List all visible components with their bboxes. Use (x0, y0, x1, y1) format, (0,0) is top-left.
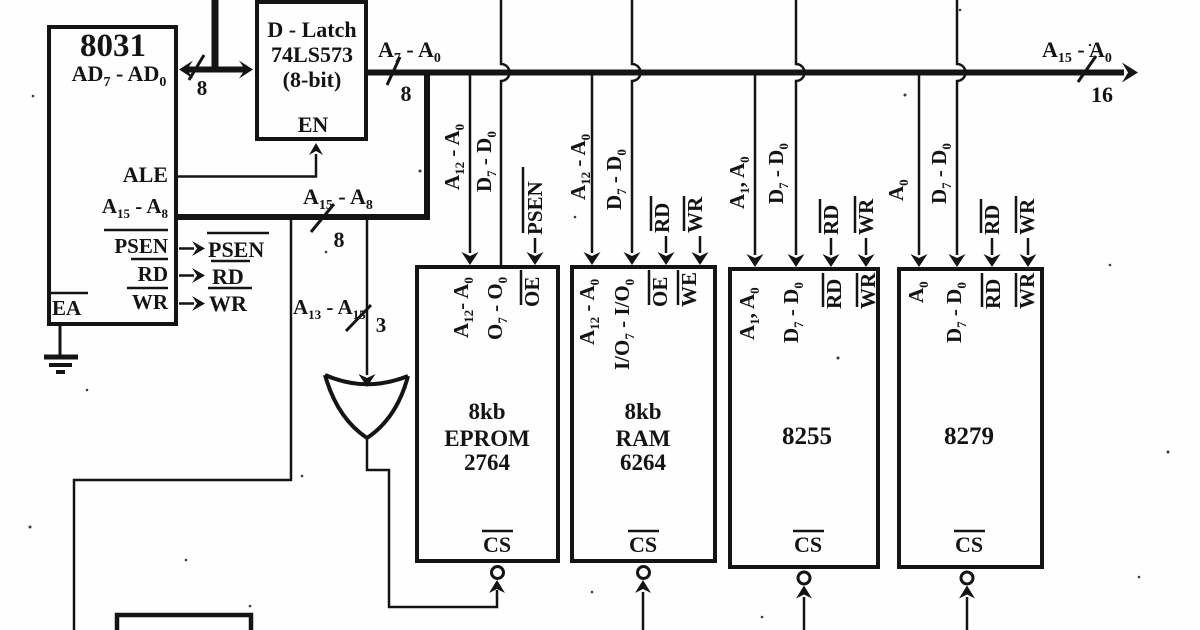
OR gate G1 (address decode, pointing down) (325, 375, 408, 438)
wire: 8279 address tap A0 (911, 75, 928, 267)
wire: 8255 data line D7-D0 from top with hop over bus (788, 0, 805, 267)
svg-text:D7 - D0: D7 - D0 (602, 149, 629, 210)
svg-text:EN: EN (298, 112, 329, 137)
IC 8031 microcontroller U1 (49, 27, 176, 324)
wire: EPROM address tap A12-A0 (462, 75, 479, 265)
svg-text:OE: OE (648, 277, 672, 307)
svg-text:WR: WR (1015, 272, 1039, 309)
node: WR control into 8255 (854, 196, 878, 267)
svg-text:A15 - A8: A15 - A8 (303, 184, 373, 213)
svg-text:D7 - D0: D7 - D0 (927, 143, 954, 204)
svg-text:8kb: 8kb (624, 399, 661, 424)
svg-text:A15 - A8: A15 - A8 (102, 194, 169, 221)
svg-text:8: 8 (197, 76, 208, 100)
node: rotated label D7-D0 above RAM (602, 149, 629, 210)
svg-text:3: 3 (376, 313, 387, 337)
node: A7-A0 label with slash 8 on bus (378, 37, 441, 106)
svg-text:D7 - D0: D7 - D0 (779, 282, 806, 343)
svg-text:WR: WR (683, 196, 707, 233)
svg-text:8255: 8255 (782, 423, 832, 450)
wire: main address bus A15-A0 (366, 63, 1138, 83)
svg-text:CS: CS (483, 532, 511, 557)
svg-text:WE: WE (677, 272, 701, 307)
svg-text:RD: RD (212, 264, 244, 289)
svg-text:ALE: ALE (123, 162, 168, 187)
node: WR control into 8279 (1015, 196, 1039, 267)
svg-text:RD: RD (981, 279, 1005, 309)
svg-text:A12- A0: A12- A0 (449, 277, 476, 338)
ground below EA pin of 8031 (44, 326, 78, 372)
svg-text:A1, A0: A1, A0 (725, 156, 752, 209)
svg-text:PSEN: PSEN (114, 234, 168, 258)
svg-text:16: 16 (1091, 82, 1113, 107)
svg-text:A12 - A0: A12 - A0 (440, 124, 467, 190)
svg-text:RD: RD (138, 262, 168, 286)
svg-text:D7 - D0: D7 - D0 (764, 143, 791, 204)
svg-text:A0: A0 (884, 179, 911, 201)
wire: A13-A15 into OR gate (359, 220, 376, 387)
node: rotated label D7-D0 above 8279 (927, 143, 954, 204)
svg-text:AD7 - AD0: AD7 - AD0 (72, 61, 167, 90)
svg-text:A12 - A0: A12 - A0 (575, 279, 602, 345)
node: RD output arrow and label (179, 261, 250, 289)
svg-text:A15 - A0: A15 - A0 (1042, 37, 1112, 66)
svg-text:6264: 6264 (620, 450, 667, 475)
svg-text:D - Latch: D - Latch (267, 17, 356, 42)
svg-text:EA: EA (52, 296, 82, 320)
node: rotated label A0 above 8279 (884, 179, 911, 201)
wire: 8279 CS down to decoder (959, 586, 975, 630)
IC 8255 PPI U5 (730, 269, 880, 584)
svg-text:A13 - A15: A13 - A15 (293, 295, 366, 322)
svg-text:D7 - D0: D7 - D0 (472, 131, 499, 192)
svg-text:8: 8 (334, 227, 345, 252)
svg-text:RD: RD (822, 279, 846, 309)
svg-text:RD: RD (980, 205, 1004, 235)
svg-text:PSEN: PSEN (523, 181, 547, 235)
IC 8279 keyboard/display controller U6 (899, 269, 1042, 584)
wire: from A15-A8 bus down and left to decoder (74, 218, 291, 630)
svg-text:D7 - D0: D7 - D0 (942, 282, 969, 343)
svg-text:8279: 8279 (944, 423, 994, 450)
svg-text:I/O7 - I/O0: I/O7 - I/O0 (610, 279, 637, 370)
wire: RAM data line D7-D0 from top with hop over bus (624, 0, 641, 265)
wire: AD7-AD0 bus between 8031 and latch (double arrow) (179, 55, 253, 100)
node: rotated label A12-A0 above EPROM (440, 124, 467, 190)
node: PSEN control into EPROM OE (523, 167, 547, 265)
svg-text:WR: WR (1015, 198, 1039, 235)
node: A15-A0 label with slash 16 at bus end (1042, 37, 1113, 107)
svg-text:PSEN: PSEN (208, 237, 264, 262)
wire: RAM address tap A12-A0 (584, 75, 601, 265)
wire: OR gate output to EPROM CS (367, 438, 505, 607)
svg-text:2764: 2764 (464, 450, 511, 475)
svg-text:8kb: 8kb (468, 399, 505, 424)
svg-text:O7 - O0: O7 - O0 (483, 277, 510, 340)
wire: 8255 CS down to decoder (796, 586, 812, 630)
node: RD control into RAM (650, 196, 675, 265)
svg-text:74LS573: 74LS573 (271, 42, 353, 67)
wire: EPROM data line D7-D0 from top with hop over bus (501, 0, 510, 267)
wire: 8279 data line D7-D0 from top with hop over bus (949, 0, 966, 267)
wire: ALE to latch EN (178, 143, 323, 177)
node: RD control into 8255 (819, 199, 843, 267)
wire: data bus from top into AD bus junction (212, 0, 219, 71)
wire: RAM CS down to decoder (635, 580, 651, 630)
svg-text:8031: 8031 (80, 28, 146, 64)
node: rotated label D7-D0 above EPROM (472, 131, 499, 192)
node: A13-A15 label with slash 3 (293, 295, 386, 337)
svg-text:CS: CS (955, 532, 983, 557)
wire: A15-A8 thick bus from 8031 up to address bus (178, 72, 427, 252)
IC RAM 6264 U4 (572, 267, 715, 579)
IC EPROM 2764 U3 (417, 267, 558, 579)
svg-text:A1, A0: A1, A0 (735, 287, 762, 340)
svg-text:A7 - A0: A7 - A0 (378, 37, 441, 66)
svg-text:RAM: RAM (616, 426, 671, 451)
svg-text:8: 8 (401, 81, 412, 106)
node: rotated label D7-D0 above 8255 (764, 143, 791, 204)
svg-text:WR: WR (854, 198, 878, 235)
svg-text:OE: OE (520, 277, 544, 307)
node: rotated label A12-A0 above RAM (566, 134, 593, 200)
svg-text:WR: WR (132, 290, 169, 314)
svg-text:EPROM: EPROM (444, 426, 530, 451)
svg-text:WR: WR (856, 272, 880, 309)
node: RD control into 8279 (980, 199, 1004, 267)
svg-text:CS: CS (629, 532, 657, 557)
svg-text:A0: A0 (904, 281, 931, 303)
wire: 8255 address tap A1,A0 (747, 75, 764, 267)
node: WR output arrow and label (179, 288, 252, 316)
svg-text:A12 - A0: A12 - A0 (566, 134, 593, 200)
svg-text:RD: RD (650, 203, 674, 233)
node: PSEN output arrow and label (179, 233, 269, 262)
svg-text:WR: WR (209, 291, 248, 316)
svg-text:RD: RD (819, 205, 843, 235)
D-Latch 74LS573 U2 (257, 2, 366, 139)
IC address decoder (partially visible at bottom) (117, 615, 251, 630)
svg-text:CS: CS (794, 532, 822, 557)
node: WR control into RAM (683, 196, 709, 265)
node: rotated label A1,A0 above 8255 (725, 156, 752, 209)
svg-text:(8-bit): (8-bit) (283, 67, 342, 92)
